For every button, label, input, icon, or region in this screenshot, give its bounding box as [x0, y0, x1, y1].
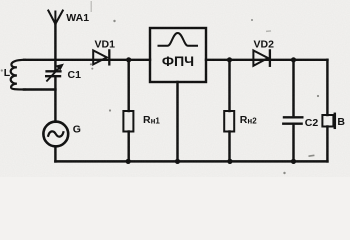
node junction at VD1 output [126, 57, 131, 62]
device B (right load) [322, 60, 334, 162]
wire top rail left (coil to FPC box) [24, 59, 150, 61]
wire top rail right (box to right corner) [206, 59, 327, 61]
capacitor C1 (variable) [46, 64, 63, 122]
node junction at box output [227, 57, 232, 62]
bottom rail [55, 160, 327, 163]
diode VD2 [253, 50, 270, 65]
inductor L [11, 60, 56, 90]
antenna WA1 [48, 11, 63, 72]
bottom rail junction dots [126, 159, 131, 164]
resistor RH2 [224, 60, 234, 162]
scan specks [1, 1, 319, 174]
paper noise [0, 0, 1, 1]
generator G [43, 122, 68, 162]
wire from box bottom to rail [176, 82, 178, 161]
resistor RH1 [123, 60, 133, 162]
diode VD1 [93, 50, 109, 64]
node junction at C2 top [291, 57, 296, 62]
block U1 FPCh (IF filter) [150, 28, 206, 82]
capacitor C2 [283, 60, 302, 162]
